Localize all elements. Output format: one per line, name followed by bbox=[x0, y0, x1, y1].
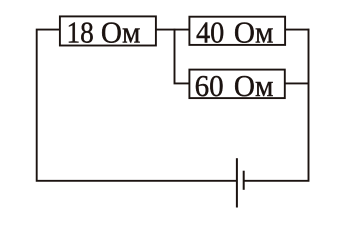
battery long plate (positive) bbox=[236, 158, 238, 207]
svg-text:18: 18 bbox=[67, 14, 94, 49]
resistor R1 box 18 Ом bbox=[60, 16, 156, 45]
svg-text:60: 60 bbox=[195, 68, 224, 103]
wire: R3 right pin to right rail bbox=[285, 82, 309, 84]
wire: right rail down to battery negative bbox=[244, 29, 309, 181]
battery short plate (negative) bbox=[243, 171, 245, 190]
svg-text:Ом: Ом bbox=[234, 68, 274, 103]
resistor R2 box 40 Ом bbox=[189, 17, 285, 45]
wire: R2 right pin to right rail bbox=[285, 29, 309, 31]
svg-text:Ом: Ом bbox=[234, 14, 274, 49]
svg-text:Ом: Ом bbox=[101, 14, 140, 49]
wire: battery positive up left side to R1 left pin bbox=[37, 30, 236, 181]
wire: R1 right pin to R2 left pin bbox=[156, 29, 190, 31]
svg-text:40: 40 bbox=[196, 14, 224, 49]
resistor R3 box 60 Ом bbox=[189, 70, 284, 99]
wire: junction drop to R3 left pin bbox=[175, 29, 190, 84]
